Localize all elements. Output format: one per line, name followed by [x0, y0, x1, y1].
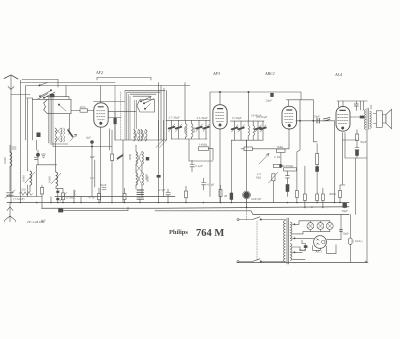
svg-text:1015: 1015	[80, 105, 87, 109]
svg-text:0.5MΩ: 0.5MΩ	[66, 196, 75, 200]
svg-text:0.1µF: 0.1µF	[196, 164, 203, 168]
svg-text:6µF: 6µF	[41, 219, 46, 223]
svg-text:0.049: 0.049	[3, 157, 7, 164]
svg-text:5000: 5000	[128, 154, 132, 161]
svg-text:AZ 1: AZ 1	[315, 250, 323, 254]
svg-text:6µF: 6µF	[90, 155, 95, 159]
svg-text:19-40µF: 19-40µF	[251, 114, 262, 118]
svg-text:0.047µF: 0.047µF	[251, 197, 261, 201]
svg-text:ABC1: ABC1	[264, 71, 275, 76]
svg-text:30µF: 30µF	[360, 140, 367, 144]
svg-text:2µF: 2µF	[86, 136, 91, 140]
svg-text:MΩ: MΩ	[256, 176, 262, 180]
svg-text:50µF: 50µF	[314, 115, 321, 119]
svg-text:2.7-30µF: 2.7-30µF	[169, 116, 180, 120]
svg-text:20µF: 20µF	[266, 99, 273, 103]
svg-text:2000: 2000	[183, 127, 187, 134]
svg-text:C 0A: C 0A	[274, 155, 281, 159]
svg-text:400Ω: 400Ω	[329, 192, 337, 196]
svg-text:764 M: 764 M	[196, 228, 224, 239]
svg-text:0000: 0000	[145, 174, 149, 181]
svg-text:4.7µF: 4.7µF	[158, 188, 165, 192]
svg-text:220: 220	[21, 188, 26, 192]
svg-text:C4: C4	[90, 176, 94, 180]
svg-text:1MΩ: 1MΩ	[277, 145, 284, 149]
svg-text:0.060: 0.060	[48, 176, 52, 183]
svg-text:( 1mA ): ( 1mA )	[353, 239, 362, 243]
svg-text:28: 28	[224, 194, 228, 198]
svg-text:30µF: 30µF	[342, 209, 349, 213]
svg-text:1.4MΩ: 1.4MΩ	[199, 143, 208, 147]
svg-text:4.7µF: 4.7µF	[207, 183, 214, 187]
svg-text:5000: 5000	[192, 127, 196, 134]
svg-text:0.060: 0.060	[22, 175, 26, 182]
svg-text:4.5-30µF: 4.5-30µF	[197, 116, 208, 120]
svg-text:15-30µF: 15-30µF	[232, 116, 243, 120]
svg-text:50µF: 50µF	[299, 248, 306, 252]
svg-text:50µF: 50µF	[343, 232, 350, 236]
svg-text:Philips: Philips	[169, 229, 188, 236]
svg-text:0.47MΩ: 0.47MΩ	[283, 164, 294, 168]
svg-text:50µF: 50µF	[100, 183, 107, 187]
svg-text:AF3: AF3	[212, 71, 220, 76]
svg-text:AL4: AL4	[334, 72, 342, 77]
svg-text:(7-52µF): (7-52µF)	[14, 197, 25, 201]
svg-text:AF2: AF2	[95, 70, 103, 75]
